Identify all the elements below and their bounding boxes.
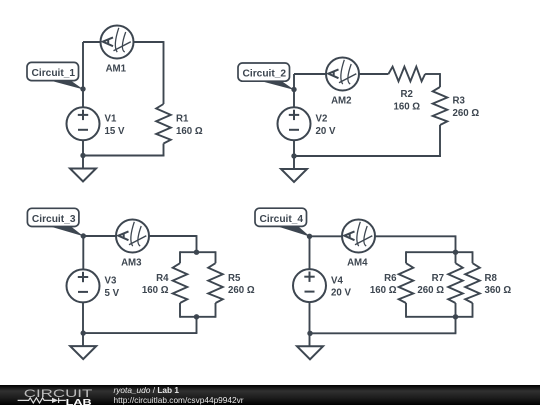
svg-text:R6: R6 <box>384 273 397 284</box>
net label Circuit_3 <box>27 208 83 236</box>
svg-text:260 Ω: 260 Ω <box>228 285 255 296</box>
wire <box>310 332 456 334</box>
ground <box>70 346 96 359</box>
node <box>194 250 199 255</box>
wire <box>180 316 216 318</box>
wire <box>82 42 84 108</box>
voltage source V1 <box>67 107 125 140</box>
wire <box>83 235 116 237</box>
wire <box>439 73 441 87</box>
wire <box>196 317 198 333</box>
svg-text:AM4: AM4 <box>347 258 368 269</box>
resistor R7 <box>417 263 462 303</box>
resistor R3 <box>433 87 480 125</box>
resistor R1 <box>156 104 203 144</box>
wire <box>294 155 441 157</box>
svg-text:V2: V2 <box>316 114 328 125</box>
svg-text:20 V: 20 V <box>331 288 351 299</box>
wire <box>82 140 84 168</box>
CircuitLab logo <box>14 386 99 406</box>
wire <box>293 140 295 169</box>
svg-text:Circuit_1: Circuit_1 <box>32 68 76 79</box>
node (Circuit_4 attach) <box>307 234 312 239</box>
wire <box>310 235 343 237</box>
svg-text:360 Ω: 360 Ω <box>485 285 512 296</box>
ammeter AM4 <box>342 220 375 269</box>
wire <box>406 316 473 318</box>
node <box>194 314 199 319</box>
ammeter AM3 <box>116 220 149 269</box>
wire <box>455 235 457 252</box>
svg-text:Circuit_3: Circuit_3 <box>32 214 76 225</box>
wire <box>455 251 457 263</box>
ammeter AM2 <box>326 58 359 107</box>
voltage source V4 <box>293 269 351 302</box>
resistor R4 <box>142 263 187 303</box>
ammeter AM1 <box>101 26 134 75</box>
wire <box>179 251 181 263</box>
net label Circuit_1 <box>27 62 84 89</box>
ground <box>297 346 323 359</box>
svg-text:R8: R8 <box>485 273 498 284</box>
footer text <box>114 386 244 406</box>
svg-text:V1: V1 <box>105 114 117 125</box>
wire <box>163 144 165 157</box>
footer bar <box>0 385 540 406</box>
svg-text:Circuit_4: Circuit_4 <box>260 214 304 225</box>
wire <box>215 303 217 318</box>
svg-text:AM3: AM3 <box>121 258 142 269</box>
node <box>80 153 85 158</box>
wire <box>163 41 165 104</box>
wire <box>294 73 326 75</box>
svg-text:20 V: 20 V <box>316 126 336 137</box>
voltage source V3 <box>67 269 120 302</box>
node <box>453 314 458 319</box>
wire <box>309 302 311 347</box>
wire <box>405 303 407 318</box>
wire <box>293 74 295 108</box>
svg-text:AM2: AM2 <box>331 96 351 107</box>
wire <box>359 73 389 75</box>
svg-text:R3: R3 <box>453 96 466 107</box>
svg-text:R4: R4 <box>156 273 169 284</box>
wire <box>82 236 84 270</box>
svg-text:15 V: 15 V <box>105 126 125 137</box>
net label Circuit_4 <box>255 208 310 236</box>
wire <box>179 303 181 318</box>
wire <box>180 251 216 253</box>
node (Circuit_1 attach) <box>80 86 85 91</box>
resistor R5 <box>208 263 255 303</box>
wire <box>309 236 311 269</box>
svg-text:160 Ω: 160 Ω <box>142 285 169 296</box>
wire <box>455 303 457 318</box>
wire <box>455 317 457 334</box>
voltage source V2 <box>278 107 336 140</box>
node (Circuit_2 attach) <box>291 87 296 92</box>
wire <box>196 235 198 252</box>
wire <box>149 235 197 237</box>
resistor R2 <box>388 67 425 113</box>
wire <box>134 41 164 43</box>
svg-text:V3: V3 <box>105 276 117 287</box>
svg-text:160 Ω: 160 Ω <box>176 126 203 137</box>
wire <box>406 251 473 253</box>
svg-text:Circuit_2: Circuit_2 <box>243 69 287 80</box>
wire <box>375 235 456 237</box>
resistor R8 <box>465 263 511 303</box>
node <box>453 250 458 255</box>
wire <box>83 332 197 334</box>
wire <box>405 251 407 263</box>
svg-text:160 Ω: 160 Ω <box>370 285 397 296</box>
wire <box>472 303 474 318</box>
wire <box>83 155 164 157</box>
wire <box>215 251 217 263</box>
svg-text:160 Ω: 160 Ω <box>393 101 420 112</box>
svg-text:R7: R7 <box>432 273 444 284</box>
svg-text:260 Ω: 260 Ω <box>417 285 444 296</box>
wire <box>82 302 84 346</box>
wire <box>425 73 440 75</box>
svg-text:R1: R1 <box>176 114 189 125</box>
wire <box>83 41 100 43</box>
ground <box>70 169 96 182</box>
wire <box>472 251 474 263</box>
ground <box>281 169 307 182</box>
wire <box>439 125 441 157</box>
node <box>307 331 312 336</box>
svg-text:R5: R5 <box>228 273 241 284</box>
svg-text:260 Ω: 260 Ω <box>453 108 480 119</box>
node <box>81 330 86 335</box>
net label Circuit_2 <box>238 63 295 90</box>
resistor R6 <box>370 263 413 303</box>
svg-text:V4: V4 <box>331 275 343 286</box>
node (Circuit_3 attach) <box>81 233 86 238</box>
svg-text:AM1: AM1 <box>106 64 127 75</box>
node <box>291 153 296 158</box>
svg-text:5 V: 5 V <box>105 288 120 299</box>
svg-text:R2: R2 <box>401 89 413 100</box>
